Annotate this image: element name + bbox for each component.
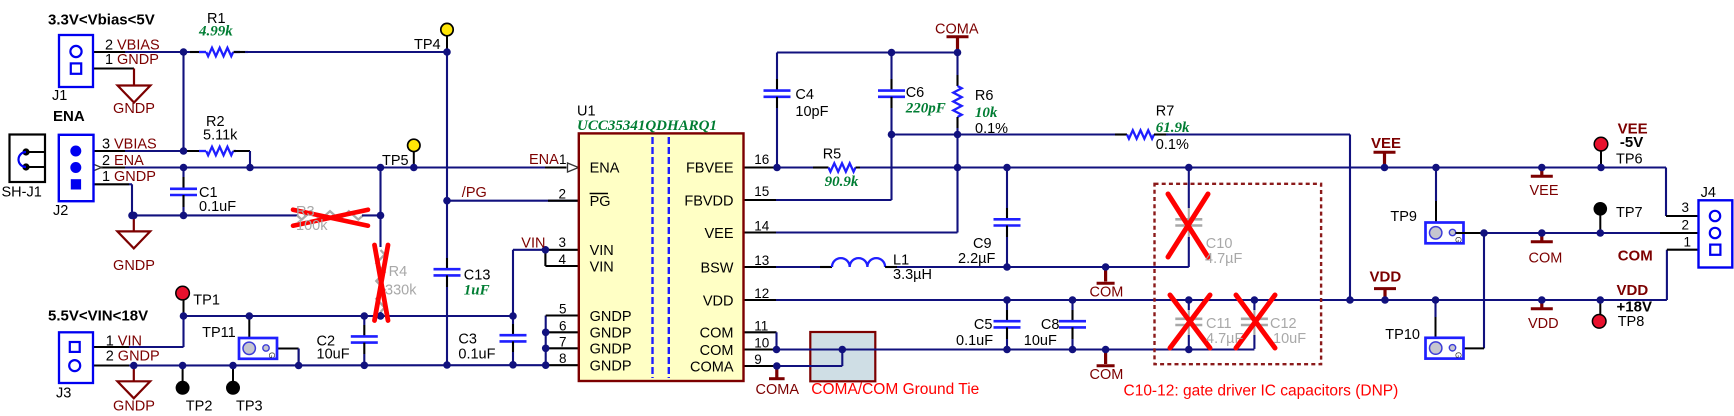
svg-text:TP2: TP2	[186, 399, 213, 415]
svg-text:10k: 10k	[975, 105, 998, 121]
svg-text:3: 3	[558, 235, 566, 250]
svg-text:VIN: VIN	[521, 236, 545, 252]
svg-text:COM: COM	[1090, 367, 1124, 383]
svg-text:C8: C8	[1041, 317, 1060, 333]
svg-text:TP5: TP5	[382, 153, 409, 169]
svg-text:1: 1	[559, 152, 567, 167]
svg-text:VEE: VEE	[1530, 183, 1559, 199]
svg-text:TP7: TP7	[1616, 205, 1643, 221]
svg-text:13: 13	[754, 253, 769, 268]
svg-text:90.9k: 90.9k	[825, 174, 859, 190]
svg-text:+18V: +18V	[1617, 298, 1652, 315]
svg-text:ENA: ENA	[590, 161, 620, 177]
svg-text:FBVDD: FBVDD	[684, 194, 733, 210]
svg-text:2.2µF: 2.2µF	[958, 251, 996, 267]
svg-text:C9: C9	[973, 236, 992, 252]
svg-text:C5: C5	[974, 317, 993, 333]
svg-text:GNDP: GNDP	[113, 101, 155, 117]
svg-text:TP4: TP4	[414, 37, 441, 53]
svg-text:0.1uF: 0.1uF	[458, 347, 495, 363]
svg-text:VIN: VIN	[118, 334, 142, 350]
svg-text:COMA/COM Ground Tie: COMA/COM Ground Tie	[811, 381, 979, 398]
svg-text:R6: R6	[975, 88, 994, 104]
svg-text:9: 9	[754, 352, 762, 367]
svg-text:3: 3	[1681, 200, 1689, 215]
svg-text:16: 16	[754, 152, 769, 167]
svg-text:0.1uF: 0.1uF	[199, 199, 236, 215]
svg-text:TP11: TP11	[202, 325, 236, 341]
svg-text:TP6: TP6	[1616, 152, 1643, 168]
svg-text:6: 6	[559, 318, 567, 333]
svg-text:GNDP: GNDP	[590, 309, 632, 325]
svg-text:TP10: TP10	[1385, 327, 1420, 343]
svg-text:SH-J1: SH-J1	[2, 185, 42, 201]
svg-text:VDD: VDD	[1617, 282, 1649, 299]
svg-text:VEE: VEE	[1371, 135, 1401, 152]
svg-text:1uF: 1uF	[464, 283, 490, 299]
svg-text:ENA: ENA	[114, 153, 144, 169]
svg-text:C4: C4	[795, 87, 814, 103]
svg-text:10uF: 10uF	[1273, 331, 1306, 347]
svg-text:3.3µH: 3.3µH	[893, 267, 932, 283]
svg-text:15: 15	[754, 184, 769, 199]
svg-text:1: 1	[106, 334, 114, 350]
svg-text:TP8: TP8	[1618, 314, 1645, 330]
svg-text:/PG: /PG	[462, 185, 487, 201]
svg-text:J3: J3	[56, 386, 71, 402]
svg-text:G: G	[267, 352, 276, 358]
svg-text:L1: L1	[893, 252, 909, 268]
svg-text:5.5V<VIN<18V: 5.5V<VIN<18V	[48, 307, 148, 324]
svg-text:0.1uF: 0.1uF	[956, 333, 993, 349]
svg-text:10uF: 10uF	[1024, 333, 1057, 349]
svg-text:J4: J4	[1701, 185, 1716, 201]
svg-text:10uF: 10uF	[317, 346, 350, 362]
svg-text:GNDP: GNDP	[590, 342, 632, 358]
svg-text:COMA: COMA	[690, 359, 734, 375]
svg-text:GNDP: GNDP	[114, 169, 156, 185]
svg-text:GNDP: GNDP	[117, 52, 159, 68]
svg-text:4.7µF: 4.7µF	[1205, 251, 1243, 267]
svg-text:3: 3	[102, 137, 110, 153]
svg-text:4: 4	[558, 252, 566, 267]
svg-text:4.99k: 4.99k	[198, 24, 233, 40]
svg-text:G: G	[1454, 352, 1463, 358]
svg-text:12: 12	[754, 286, 769, 301]
svg-text:C13: C13	[464, 268, 491, 284]
svg-text:VBIAS: VBIAS	[114, 137, 157, 153]
svg-text:J1: J1	[52, 88, 67, 104]
svg-text:FBVEE: FBVEE	[686, 161, 734, 177]
svg-text:C10-12: gate driver IC capacit: C10-12: gate driver IC capacitors (DNP)	[1124, 383, 1399, 400]
svg-text:C10: C10	[1206, 236, 1233, 252]
svg-text:C6: C6	[906, 85, 925, 101]
svg-text:GNDP: GNDP	[118, 349, 160, 365]
svg-text:330k: 330k	[385, 283, 417, 299]
svg-text:GNDP: GNDP	[113, 399, 155, 415]
svg-text:COMA: COMA	[935, 22, 979, 38]
svg-text:2: 2	[106, 349, 114, 365]
svg-text:GNDP: GNDP	[590, 358, 632, 374]
svg-text:COM: COM	[1618, 248, 1653, 265]
svg-text:ENA: ENA	[529, 152, 559, 168]
svg-text:3.3V<Vbias<5V: 3.3V<Vbias<5V	[48, 12, 155, 29]
svg-text:COM: COM	[1529, 251, 1563, 267]
svg-text:BSW: BSW	[700, 260, 733, 276]
svg-text:8: 8	[559, 351, 567, 366]
svg-text:R4: R4	[389, 264, 408, 280]
svg-text:C12: C12	[1270, 316, 1297, 332]
svg-text:COM: COM	[700, 326, 734, 342]
svg-text:14: 14	[754, 219, 770, 234]
svg-text:VIN: VIN	[590, 243, 614, 259]
svg-text:2: 2	[558, 187, 566, 202]
svg-text:C3: C3	[458, 332, 477, 348]
svg-text:10: 10	[754, 336, 769, 351]
svg-text:220pF: 220pF	[905, 101, 946, 117]
svg-text:VDD: VDD	[703, 293, 734, 309]
svg-text:5: 5	[559, 302, 567, 317]
svg-text:1: 1	[102, 169, 110, 185]
svg-text:10pF: 10pF	[795, 104, 828, 120]
svg-text:4.7µF: 4.7µF	[1206, 331, 1244, 347]
svg-text:G: G	[1454, 237, 1463, 243]
svg-text:UCC35341QDHARQ1: UCC35341QDHARQ1	[577, 118, 717, 134]
svg-text:VEE: VEE	[704, 226, 733, 242]
svg-text:61.9k: 61.9k	[1156, 120, 1190, 136]
svg-text:0.1%: 0.1%	[975, 121, 1008, 137]
svg-text:VDD: VDD	[1528, 316, 1559, 332]
svg-text:TP3: TP3	[236, 399, 263, 415]
svg-text:R5: R5	[823, 147, 842, 163]
svg-text:TP1: TP1	[193, 293, 220, 309]
svg-text:ENA: ENA	[53, 108, 85, 125]
svg-text:C11: C11	[1206, 316, 1232, 332]
svg-text:J2: J2	[53, 203, 68, 219]
svg-text:COM: COM	[1090, 285, 1124, 301]
svg-text:GNDP: GNDP	[113, 258, 155, 274]
svg-text:TP9: TP9	[1390, 209, 1417, 225]
svg-text:COM: COM	[700, 343, 734, 359]
svg-text:2: 2	[1681, 218, 1689, 233]
svg-text:11: 11	[754, 318, 768, 333]
svg-text:-5V: -5V	[1620, 134, 1643, 151]
svg-text:1: 1	[1683, 235, 1691, 250]
svg-text:VIN: VIN	[590, 259, 614, 275]
svg-text:PG: PG	[590, 194, 611, 210]
svg-text:5.11k: 5.11k	[203, 128, 238, 144]
svg-text:2: 2	[102, 153, 110, 169]
svg-text:7: 7	[559, 334, 567, 349]
svg-text:VDD: VDD	[1370, 269, 1402, 286]
svg-text:100k: 100k	[296, 218, 328, 234]
svg-text:R7: R7	[1156, 103, 1175, 119]
svg-text:0.1%: 0.1%	[1156, 137, 1189, 153]
svg-text:COMA: COMA	[756, 382, 800, 398]
svg-text:1: 1	[105, 52, 113, 68]
svg-text:GNDP: GNDP	[590, 325, 632, 341]
